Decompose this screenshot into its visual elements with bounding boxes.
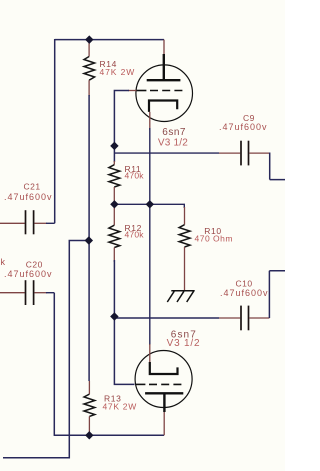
ground (chassis) — [167, 291, 194, 302]
junction dot cathode row right — [146, 201, 153, 208]
tube V3b plate lead to bottom bus — [163, 412, 165, 435]
capacitor C20 — [0, 280, 54, 305]
svg-text:47K 2W: 47K 2W — [103, 402, 137, 412]
wire C9 output — [270, 153, 285, 180]
wire cathode row — [114, 204, 184, 208]
wire C20 down to bottom bus — [54, 293, 90, 436]
svg-text:.47uf600v: .47uf600v — [220, 288, 269, 298]
wire junction B to R13 — [88, 241, 90, 382]
wire grid top tube to R11 line — [128, 90, 136, 92]
tube V3a cathode — [149, 101, 177, 112]
wire top bus — [55, 39, 164, 41]
capacitor C9 — [241, 141, 270, 166]
svg-text:.47uf600v: .47uf600v — [219, 122, 268, 132]
wire to C10 — [114, 317, 219, 319]
resistor R10 — [179, 207, 190, 290]
triode U=V3a 6sn7 envelope circle — [136, 65, 193, 122]
tube V3b cathode lead — [149, 344, 151, 363]
svg-text:V3 1/2: V3 1/2 — [158, 137, 188, 148]
svg-text:470k: 470k — [0, 257, 6, 267]
resistor R13 — [84, 381, 95, 435]
capacitor C10 — [241, 306, 269, 331]
tube V3b plate — [145, 392, 183, 394]
resistor R12 — [109, 204, 120, 262]
svg-text:470k: 470k — [125, 171, 145, 181]
wire bottom bus right to tube plate — [89, 434, 164, 436]
tube V3b grid (dashed) — [135, 383, 145, 385]
capacitor C21 — [0, 210, 55, 234]
junction dot bottom bus — [86, 432, 93, 439]
resistor R11 — [109, 161, 120, 204]
wire R12 to C10 junction and down to bottom grid — [114, 260, 134, 384]
tube V3b cathode — [150, 362, 178, 374]
tube V3b circle — [135, 351, 192, 408]
wire branch left and down to bottom left — [3, 241, 89, 458]
wire C10 output — [269, 271, 285, 318]
tube V3a plate lead — [163, 40, 165, 55]
tube V3a grid (dashed) — [136, 90, 146, 92]
svg-text:C21: C21 — [24, 182, 41, 192]
svg-text:470k: 470k — [125, 230, 145, 240]
svg-text:.47uf600v: .47uf600v — [4, 269, 53, 279]
wire R14 to junction B — [88, 95, 90, 241]
junction dot cathode row left — [111, 201, 118, 208]
svg-text:C20: C20 — [26, 259, 43, 269]
wire to C9 — [114, 152, 219, 154]
junction dot top bus — [86, 36, 93, 43]
junction dot C10 wire — [111, 313, 118, 320]
svg-text:470 Ohm: 470 Ohm — [195, 234, 233, 244]
junction dot left branch — [85, 237, 92, 244]
svg-text:V3 1/2: V3 1/2 — [167, 338, 201, 349]
svg-text:.47uf600v: .47uf600v — [4, 192, 53, 202]
junction dot grid line — [111, 142, 118, 149]
resistor R14 — [84, 40, 95, 96]
tube V3a plate — [163, 54, 165, 80]
tube V3a cathode lead — [149, 112, 151, 130]
wire cathode line down — [149, 128, 151, 345]
svg-text:47K 2W: 47K 2W — [100, 67, 136, 77]
wire left vertical from top bus to C21 — [54, 39, 56, 223]
